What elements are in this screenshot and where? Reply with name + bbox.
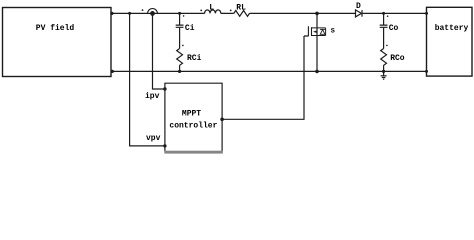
svg-text:battery: battery xyxy=(435,24,469,33)
svg-text:S: S xyxy=(331,27,335,35)
svg-text:RCi: RCi xyxy=(187,54,202,63)
svg-text:RL: RL xyxy=(236,3,246,12)
svg-text:vpv: vpv xyxy=(146,134,161,143)
svg-text:MPPT: MPPT xyxy=(182,110,201,119)
svg-text:RCo: RCo xyxy=(390,54,405,63)
svg-text:D: D xyxy=(356,2,361,11)
svg-text:ipv: ipv xyxy=(145,92,160,101)
svg-text:PV field: PV field xyxy=(36,24,75,33)
svg-text:L: L xyxy=(209,3,214,12)
svg-text:Co: Co xyxy=(389,24,399,33)
svg-text:controller: controller xyxy=(169,121,217,130)
svg-text:Ci: Ci xyxy=(185,24,195,33)
